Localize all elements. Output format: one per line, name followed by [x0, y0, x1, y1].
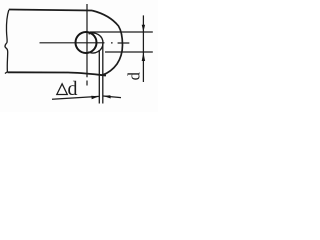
arrowhead right at left extension line — [91, 96, 99, 99]
dimension tail right of extension lines — [103, 96, 121, 98]
arrowhead down to top extension line — [142, 25, 145, 32]
svg-text:d: d — [68, 78, 78, 100]
dimension line d (vertical) — [142, 15, 144, 82]
label delta (of delta-d) — [57, 84, 68, 95]
arrowhead up to bottom extension line — [142, 52, 145, 61]
part top edge — [9, 10, 92, 11]
vertical center line of hole — [86, 4, 88, 86]
extension line from hole bottom — [105, 51, 153, 53]
arrowhead left at right extension line — [103, 95, 111, 98]
extension line from displaced circle right edge — [102, 44, 104, 104]
part rounded end curve — [92, 11, 123, 76]
horizontal center line of hole — [40, 42, 130, 44]
leader line from delta-d label — [52, 96, 99, 99]
displaced circle (d + deviation, thin arc) — [88, 33, 103, 53]
hole circle d (bold) — [76, 32, 97, 53]
svg-text:d: d — [125, 71, 144, 80]
part bottom edge — [8, 72, 107, 75]
extension line from hole top — [90, 31, 153, 33]
break line (left wavy edge) — [5, 10, 9, 74]
extension line from hole right edge — [98, 50, 100, 104]
